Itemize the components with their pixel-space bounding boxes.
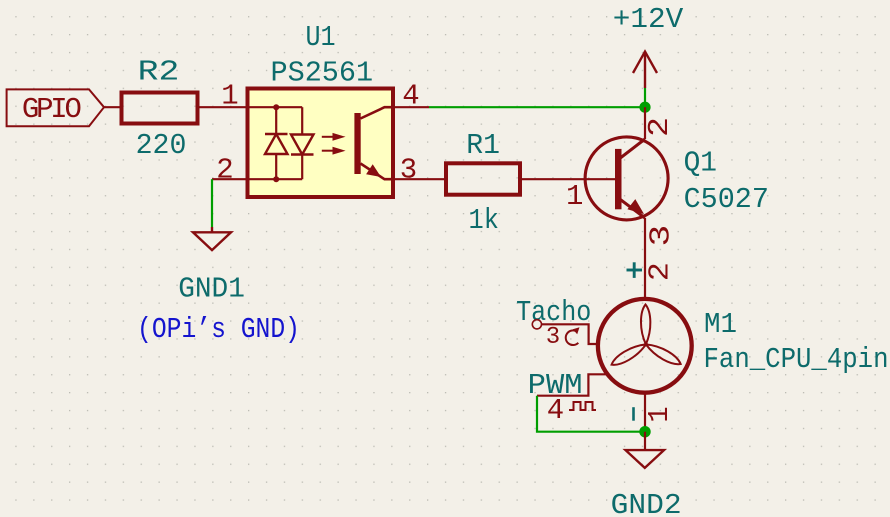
U1 internal anode rail wires <box>248 107 303 179</box>
wire R1 to Q1 base <box>520 178 615 180</box>
svg-text:4: 4 <box>547 394 564 427</box>
svg-text:Fan_CPU_4pin: Fan_CPU_4pin <box>704 343 889 376</box>
U1 light emission arrow lower <box>322 148 342 153</box>
power +12V symbol <box>633 52 657 88</box>
U1 pin 2 stub <box>212 178 248 180</box>
fan blade up <box>641 305 650 345</box>
svg-text:4: 4 <box>402 80 419 113</box>
motor fan M1 circle <box>598 299 692 393</box>
svg-text:3: 3 <box>645 225 678 247</box>
U1 LED diode right (pointing down) <box>291 135 314 155</box>
resistor R1 <box>446 163 520 194</box>
U1 phototransistor emitter arrow <box>366 164 381 177</box>
wire R2 to U1 pin 1 <box>198 106 248 108</box>
svg-text:2: 2 <box>645 262 677 281</box>
wire Q1 emitter to fan M1 <box>644 218 646 299</box>
net label GPIO <box>7 89 104 126</box>
svg-text:220: 220 <box>136 129 187 162</box>
junction node at +12V <box>639 102 650 113</box>
wire fan bottom to junction <box>644 393 646 432</box>
wire U1 pin4 to +12V node (green) <box>429 106 645 108</box>
wire GPIO to R2 <box>104 106 122 108</box>
U1 phototransistor emitter line <box>361 164 394 180</box>
resistor R2 <box>122 93 198 124</box>
fan blade lower-right <box>644 340 683 368</box>
svg-text:2: 2 <box>216 154 233 187</box>
svg-text:+12V: +12V <box>613 3 684 36</box>
svg-text:1k: 1k <box>469 204 499 237</box>
U1 LED diode left (pointing up) <box>265 134 288 154</box>
tacho rotation symbol <box>566 327 580 345</box>
svg-text:R2: R2 <box>138 55 180 88</box>
PWM pulse symbol <box>569 402 596 410</box>
Q1 emitter arrow <box>627 199 644 214</box>
transistor Q1 circle <box>585 137 668 220</box>
svg-text:1: 1 <box>566 180 583 213</box>
svg-text:3: 3 <box>400 154 417 187</box>
svg-text:C5027: C5027 <box>684 183 769 216</box>
svg-text:(OPi’s GND): (OPi’s GND) <box>137 313 300 346</box>
U1 phototransistor collector line <box>361 107 394 118</box>
svg-text:Q1: Q1 <box>684 147 717 180</box>
fan blade lower-left <box>609 341 648 369</box>
svg-text:1: 1 <box>644 406 676 422</box>
fan minus polarity mark <box>632 407 635 421</box>
svg-text:R1: R1 <box>466 129 500 162</box>
svg-text:GND2: GND2 <box>611 489 682 517</box>
wire junction to GND2 <box>644 432 646 450</box>
wire +12V stub (green) <box>644 88 646 107</box>
U1 internal junction dot bottom <box>273 176 279 182</box>
ground GND1 symbol <box>193 227 231 250</box>
M1 pin 3 line <box>542 324 598 344</box>
Q1 collector wire to +12V node <box>644 107 646 139</box>
svg-text:3: 3 <box>546 324 560 351</box>
wire PWM to ground (green) <box>537 396 645 432</box>
svg-text:GND1: GND1 <box>178 273 245 306</box>
optocoupler U1 body <box>248 89 394 198</box>
U1 pin 4 stub <box>393 106 429 108</box>
svg-text:U1: U1 <box>306 21 336 54</box>
U1 phototransistor base bar <box>354 113 360 174</box>
U1 pin 3 stub <box>393 178 446 180</box>
svg-text:M1: M1 <box>704 308 737 341</box>
svg-text:GPIO: GPIO <box>22 93 82 126</box>
wire U1 pin 2 to GND1 (green) <box>211 179 213 227</box>
Q1 collector diagonal <box>619 139 645 159</box>
fan plus polarity mark <box>627 262 643 278</box>
svg-text:1: 1 <box>221 80 238 113</box>
svg-text:PS2561: PS2561 <box>271 57 374 90</box>
ground GND2 symbol <box>626 450 665 468</box>
junction node at GND2 <box>639 426 650 437</box>
M1 pin 4 line <box>537 374 606 395</box>
svg-text:2: 2 <box>644 117 676 137</box>
U1 internal junction dot top <box>273 104 279 110</box>
Q1 emitter diagonal <box>619 199 645 219</box>
M1 tacho pin open end circle <box>532 320 541 329</box>
Q1 base bar <box>615 149 622 209</box>
U1 light emission arrow upper <box>322 134 342 139</box>
